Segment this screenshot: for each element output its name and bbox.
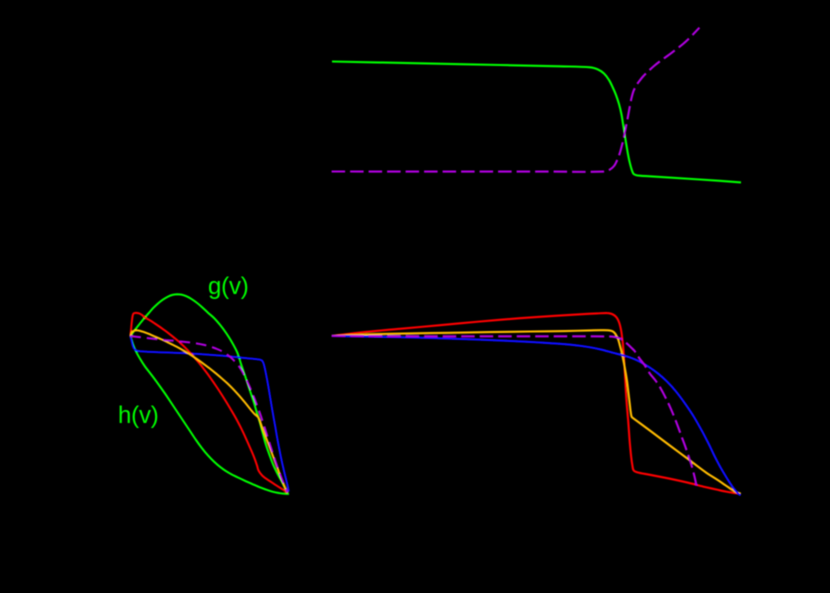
svg-text:h(v): h(v) [118,402,159,429]
curve: bottom-right blue f(v) [332,336,741,495]
curve: top-right purple dashed branch [332,28,700,172]
curve: bottom-left red trajectory [130,313,287,493]
curve: bottom-right orange f(v) [332,330,741,493]
curve: bottom-left purple dashed trajectory [130,336,287,493]
curve: top-right green solid branch [332,62,741,183]
curve: bottom-left green lower arc h(v) [130,336,289,494]
curve: bottom-left orange trajectory [130,330,287,492]
curve: bottom-left blue trajectory [130,336,288,492]
curve: bottom-right purple dashed f(v) [332,336,697,486]
curve: bottom-left green upper arc g(v) [130,294,287,493]
curve: bottom-right red f(v) [332,313,740,493]
svg-text:g(v): g(v) [208,273,249,300]
